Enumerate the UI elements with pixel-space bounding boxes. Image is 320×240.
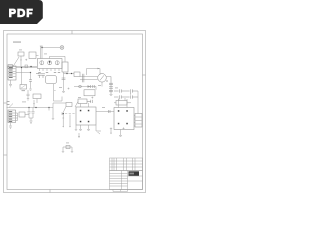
node [21,67,22,68]
fold tick top [71,31,73,35]
regulator V1 [62,62,68,72]
pin labels [38,71,60,74]
capacitor C11 [114,89,128,92]
transformer T1 [38,59,63,69]
wire [96,125,101,134]
ground [9,123,12,129]
relay K1 [29,52,36,59]
wire [114,98,131,103]
relay block B K3 [114,108,134,130]
capacitor C17 [29,80,32,81]
label [7,103,10,106]
diode D3 [88,85,91,87]
ground [71,151,73,152]
wire bus [7,107,54,109]
motor M1 [98,74,107,83]
wire [16,68,37,73]
box X2 [20,85,27,90]
feedback loop [87,69,101,76]
label [7,100,10,103]
arrow [69,126,70,128]
capacitor C12 [128,89,138,94]
T1 pins [40,69,60,72]
wire [119,99,128,108]
plus mark [91,97,93,99]
wire [96,111,114,113]
fold tick left upper [4,102,8,104]
wire [30,81,32,88]
wire [48,108,50,111]
ground [29,89,32,90]
box X3 [74,72,80,77]
ground [52,119,54,120]
wire [25,114,29,116]
capacitor C1 [38,74,42,78]
fold tick right [143,74,146,76]
plus mark [123,127,125,129]
wire [63,107,66,114]
wire [53,103,66,118]
ground [110,128,112,134]
capacitor C3 [27,90,30,99]
connector J1 [8,66,16,80]
inner border frame [7,34,143,190]
capacitor C8 [82,74,84,83]
node L1 [41,47,42,48]
resistor R5 [78,99,87,104]
inductor L2 [79,85,82,88]
thermistor RT1 [25,65,28,68]
wire [36,99,38,104]
wire [36,55,39,57]
tick [54,90,55,92]
wire [134,116,135,127]
capacitor C14 [128,95,138,98]
varistor RV1 [8,65,13,69]
wire [101,82,103,86]
title table [110,171,143,190]
dashed net [65,113,76,115]
note text top-left [13,42,21,43]
ground [62,91,65,92]
tick [62,117,64,119]
label specks [19,50,118,144]
ground [27,99,29,100]
node [30,72,31,73]
ground [9,80,12,87]
switch S1 [13,57,19,67]
wire [21,68,23,85]
box U3 [19,112,25,117]
wire pair [40,46,43,59]
wire AC bus [8,66,38,68]
wire pair [80,77,98,80]
page sheet [4,31,146,193]
capacitor C16 [93,85,94,88]
node [48,107,49,108]
ground [110,95,113,96]
ground [62,151,64,152]
resistor R4 [116,101,127,106]
capacitor C5 [32,108,35,119]
node [63,113,64,114]
arrow [20,60,21,62]
plus mark [106,80,108,82]
fuse F1 [18,52,24,56]
ground [75,125,77,131]
capacitor C13 [114,95,128,98]
wire [64,72,75,91]
node N1 [28,107,29,108]
node [66,73,67,74]
wire [29,118,33,121]
plus mark [68,88,70,90]
capacitor C6 [62,78,66,80]
wire [16,113,18,121]
wire [106,76,111,78]
wire [75,102,89,108]
arrow [63,126,64,128]
wire [20,56,22,67]
capacitor stack C10 [109,77,113,95]
label [22,89,26,92]
logo [129,171,140,176]
arrow [98,68,100,69]
arrow [33,103,34,104]
node AC [30,66,31,67]
tick [25,59,27,61]
connector J2 [8,110,16,123]
wire [63,115,70,127]
capacitor C15 [87,100,92,103]
wire [50,55,65,57]
box FL1 [84,90,95,96]
ground [79,130,82,131]
resistor R2 [33,94,41,99]
jumper X1 [63,147,72,151]
wire [54,84,63,101]
wire [30,73,32,80]
box U4 [66,103,72,107]
IC U1 [46,76,57,84]
diode D2 [9,104,13,108]
wire [137,91,139,114]
lamp DS1 [42,47,60,49]
node N2 [35,107,36,108]
wire [81,125,89,129]
revision table [110,158,143,171]
diode D4 [109,110,111,113]
ground [87,130,90,131]
net tap [61,112,63,115]
fold tick bottom [49,190,51,193]
node [71,73,72,74]
ground [119,130,122,137]
capacitor C4 [28,108,31,119]
PDF badge [0,0,43,24]
wire output row [74,86,96,88]
wire [64,56,66,62]
connector J3 [135,114,142,128]
title block [110,158,143,191]
arrow [110,133,111,135]
ground [30,121,33,123]
arrow [78,133,79,138]
fold tick left lower [4,154,8,156]
T1 top pin [49,56,51,58]
capacitor C2 [41,74,45,78]
wire [33,100,35,108]
wire [95,87,97,90]
relay block A K2 [76,107,96,125]
